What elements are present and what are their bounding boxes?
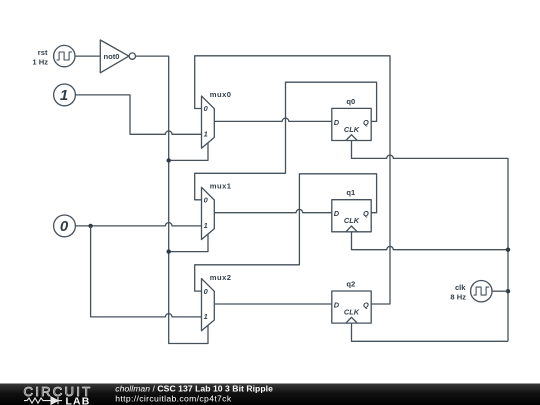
svg-text:mux1: mux1 [210,182,232,191]
wire mux1 output to q1 D (hop over fb1) [214,209,331,212]
wire q1 Q feedback to mux2 input0 [195,174,377,291]
svg-text:CLK: CLK [344,308,360,317]
svg-text:0: 0 [60,218,69,235]
svg-text:Q: Q [363,300,369,309]
wire 0-source to mux1 input1 (hop over not0 bus) [75,223,201,226]
mux1 [202,187,215,239]
wire mux1 select stub [169,234,208,251]
svg-text:8 Hz: 8 Hz [450,293,466,302]
svg-text:q2: q2 [346,279,355,288]
svg-text:D: D [334,209,340,218]
inverter not0 [100,40,135,73]
rst source V1 [54,45,101,66]
svg-text:D: D [334,300,340,309]
svg-text:q1: q1 [346,188,356,197]
svg-text:0: 0 [204,104,209,113]
wire 0-source branch to mux2 input1 (hop over not0 bus) [91,226,202,317]
footer bar [0,384,540,405]
svg-text:Q: Q [363,118,369,127]
junction clock bus source [506,289,510,293]
svg-text:0: 0 [204,287,209,296]
svg-text:1: 1 [204,312,208,321]
junction 0-source branch [88,224,92,228]
flip-flop q0 [332,108,371,140]
svg-text:not0: not0 [104,52,120,61]
CircuitLab logo diode [49,397,62,404]
svg-text:q0: q0 [346,97,355,106]
CircuitLab logo resistor-diode glyph [24,398,49,403]
svg-text:CLK: CLK [344,125,360,134]
svg-text:D: D [334,118,340,127]
svg-text:LAB: LAB [66,396,91,405]
wire q0 CLK to clock bus (hop over q2 feedback) [352,141,509,342]
svg-text:mux2: mux2 [210,273,232,282]
constant 1 source [54,84,76,106]
wire not0 output to select bus [136,56,209,343]
svg-text:clk: clk [455,283,466,292]
svg-text:1: 1 [204,130,208,139]
flip-flop q2 [332,291,371,323]
junction select mux1 [167,249,171,253]
wire q2 Q feedback to mux0 input0 [195,56,390,304]
mux2 [202,279,215,331]
svg-text:Q: Q [363,209,369,218]
flip-flop q1 [332,200,371,232]
wire q1 CLK to clock bus (hop over q2 feedback) [352,232,509,250]
svg-text:http://circuitlab.com/cp4t7ck: http://circuitlab.com/cp4t7ck [115,394,232,404]
svg-text:CLK: CLK [344,216,360,225]
wire q2 CLK to clock bus [352,323,509,341]
wire mux2 output to q2 D [214,303,331,305]
mux0 [202,96,215,148]
svg-text:1: 1 [204,221,208,230]
wire q0 Q feedback to mux1 input0 [195,82,377,200]
svg-text:0: 0 [204,196,209,205]
svg-text:1 Hz: 1 Hz [32,58,48,67]
junction select mux0 [167,158,171,162]
svg-text:mux0: mux0 [210,90,232,99]
svg-text:1: 1 [60,87,68,104]
svg-text:rst: rst [38,48,48,57]
constant 0 source [54,215,76,237]
wire 1-source to mux0 input1 (hop over not0 bus) [75,95,201,134]
wire mux0 select stub [169,143,208,160]
junction clock bus q1 [506,248,510,252]
clk source V2 [471,281,508,302]
wire mux0 output to q0 D (hop over fb0) [214,118,331,121]
svg-text:chollman / CSC 137 Lab 10 3 Bi: chollman / CSC 137 Lab 10 3 Bit Ripple [115,383,273,393]
